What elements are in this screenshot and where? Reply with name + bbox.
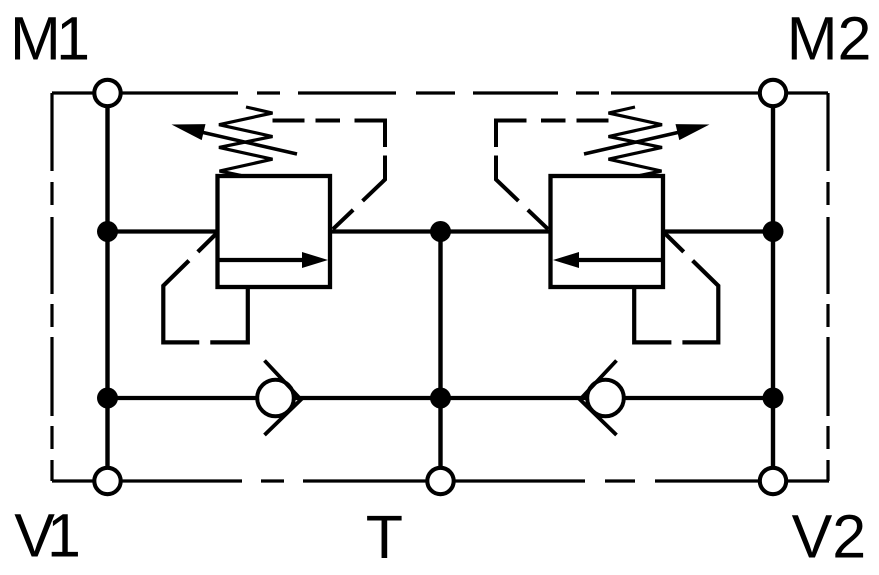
enclosure boundary bottom — [52, 479, 829, 482]
relief valve RV1 adjust arrow — [172, 124, 298, 154]
check valve CV1 ball — [257, 380, 294, 417]
svg-text:V1: V1 — [14, 501, 81, 569]
junction node B1 — [97, 388, 118, 409]
port V1 — [94, 468, 120, 494]
relief valve RV2 drain line — [634, 232, 718, 343]
wire M1 to V1 vertical — [105, 93, 109, 481]
enclosure boundary right — [826, 93, 829, 481]
port V2 — [760, 468, 786, 494]
relief valve RV2 adjust arrow — [584, 124, 710, 154]
enclosure boundary left — [50, 93, 53, 481]
svg-text:M1: M1 — [10, 5, 90, 73]
junction node B2 — [430, 388, 451, 409]
relief valve RV1 spring — [219, 107, 273, 176]
junction node A2 — [430, 221, 451, 242]
relief valve RV1 drain line — [163, 232, 248, 343]
check valve CV1 seat — [265, 361, 302, 436]
check valve CV2 ball — [587, 380, 624, 417]
relief valve RV2 spring — [609, 107, 663, 176]
wire relief line horizontal — [108, 229, 774, 233]
check valve CV2 seat — [580, 361, 617, 436]
wire T vertical — [438, 232, 442, 482]
port M2 — [760, 80, 786, 106]
junction node A1 — [97, 221, 118, 242]
relief valve RV1 flow arrow — [219, 252, 328, 268]
wire check line horizontal — [108, 396, 774, 400]
port M1 — [94, 80, 120, 106]
svg-text:T: T — [366, 503, 403, 571]
wire M2 to V2 vertical — [771, 93, 775, 481]
relief valve RV1 pilot line — [273, 121, 386, 232]
relief valve RV2 flow arrow — [553, 252, 662, 268]
svg-text:M2: M2 — [787, 4, 872, 72]
relief valve RV2 pilot line — [496, 121, 609, 232]
enclosure boundary top — [52, 91, 828, 94]
port T — [427, 468, 453, 494]
svg-text:V2: V2 — [792, 503, 867, 571]
relief valve RV1 body — [218, 176, 331, 287]
relief valve RV2 body — [551, 176, 664, 287]
junction node B3 — [763, 388, 784, 409]
junction node A3 — [763, 221, 784, 242]
